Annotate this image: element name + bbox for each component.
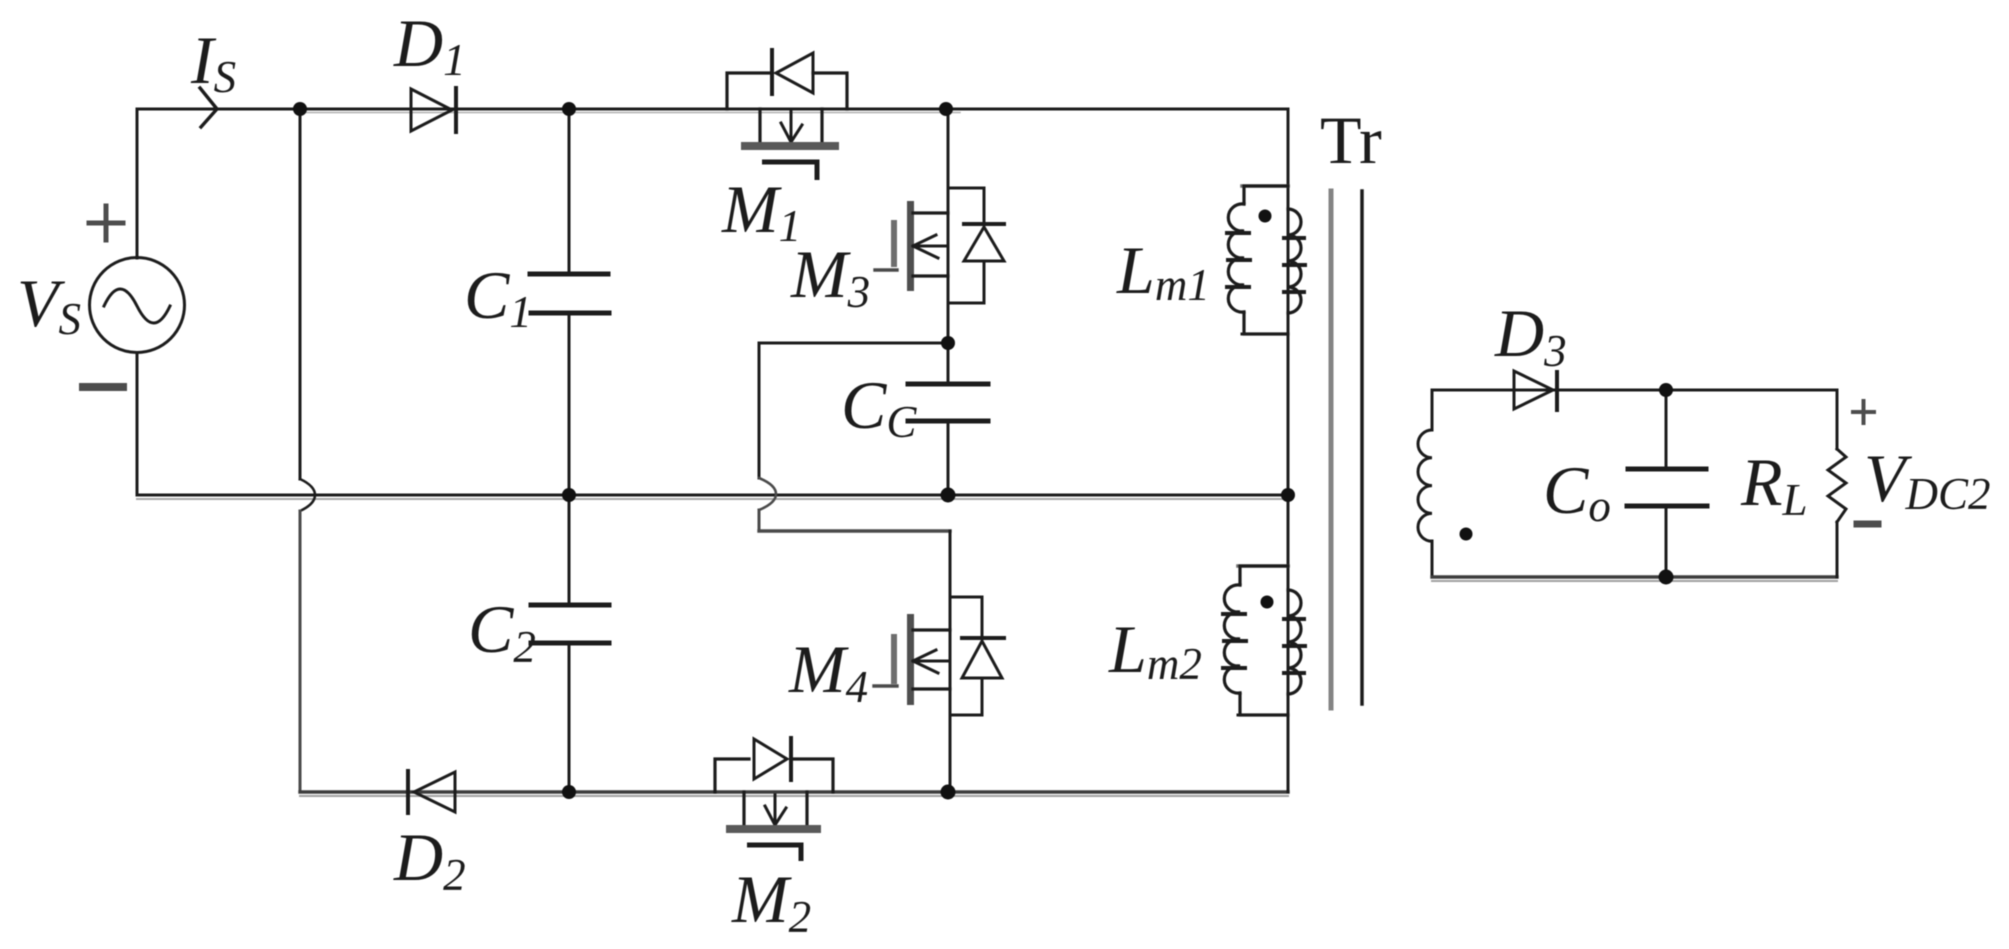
wire Lm1 top lead (1242, 184, 1288, 188)
wire M3 source to bypass left (759, 342, 948, 345)
junction node top C1 (562, 102, 576, 116)
wire Co bottom lead (1665, 506, 1668, 577)
wire secondary left vertical upper (1431, 390, 1434, 430)
wire VS bottom lead (136, 353, 139, 495)
inductor Lm1 (1227, 186, 1305, 334)
wire middle rail echo (137, 498, 1288, 500)
diode D1 (411, 88, 456, 132)
wire C1 column top (568, 109, 571, 274)
VS minus sign (83, 383, 123, 391)
wire secondary left vertical lower (1431, 541, 1434, 577)
wire top rail (137, 108, 1288, 111)
junction node top x300 (293, 102, 307, 116)
wire VS top lead (136, 109, 139, 258)
wire CC bottom (947, 421, 950, 495)
wire vertical x300 upper (299, 109, 302, 479)
wire C2 column bottom (568, 643, 571, 792)
wire CC top (947, 343, 950, 384)
polarity dot Lm2 (1261, 596, 1274, 609)
VDC2 plus sign (1853, 401, 1874, 423)
wire top rail echo (300, 112, 960, 114)
wire C2 column top (568, 495, 571, 605)
mosfet M4 (vertical) (874, 597, 1004, 715)
capacitor C1 (530, 274, 609, 313)
resistor RL zigzag (1828, 449, 1846, 522)
wire secondary bottom echo (1432, 580, 1837, 582)
wire secondary bottom (1432, 575, 1837, 578)
junction node secondary bottom Co (1659, 570, 1674, 585)
capacitor CC (908, 384, 988, 421)
IS arrow (200, 88, 217, 127)
wire Co top lead (1665, 390, 1668, 469)
wire bottom rail (300, 790, 1288, 793)
capacitor C2 (531, 605, 609, 643)
junction node bottom M4 (941, 785, 956, 800)
wire bottom rail echo (300, 795, 1288, 797)
mosfet M1 (horizontal, on top rail) (727, 50, 847, 150)
wire bypass vertical upper (758, 343, 761, 478)
svg-text:Tr: Tr (1320, 102, 1382, 178)
diode D2 (408, 771, 455, 813)
wire M3 drain column (947, 109, 950, 343)
wire secondary top (1432, 389, 1837, 392)
wire RL bottom lead (1836, 522, 1839, 577)
wire Lm1 bottom lead (1242, 333, 1288, 336)
wire RL top lead (1836, 390, 1839, 449)
transformer core right bar (1360, 191, 1364, 704)
wire C1 column bottom (568, 313, 571, 495)
diode D3 (1514, 371, 1557, 410)
VDC2 minus sign (1857, 521, 1878, 528)
wire vertical x300 lower (299, 511, 302, 792)
wire bypass vertical lower (758, 510, 761, 531)
wire hop x300 over middle rail (300, 479, 315, 511)
mosfet M2 (horizontal, on bottom rail) (715, 738, 833, 833)
wire Lm2 top lead (1238, 564, 1288, 568)
transformer secondary winding (1418, 430, 1432, 541)
polarity dot secondary (1460, 528, 1473, 541)
junction node M3 source (941, 336, 955, 350)
wire M4 drain column (949, 531, 952, 792)
transformer core left bar (1329, 191, 1334, 708)
wire primary bus right (1287, 109, 1290, 792)
VS plus sign (89, 206, 123, 240)
capacitor Co (1627, 469, 1707, 506)
voltage source VS sine (104, 289, 170, 323)
wire bypass horizontal to M4 (759, 529, 950, 532)
voltage source VS circle (90, 258, 185, 353)
polarity dot Lm1 (1259, 210, 1272, 223)
wire hop bypass over middle rail (759, 478, 776, 510)
mosfet M3 (vertical) (875, 188, 1004, 303)
junction node rail C1C2 (562, 488, 576, 502)
junction node rail CC (941, 488, 956, 503)
junction node top M3 (939, 102, 953, 116)
inductor Lm2 (1223, 566, 1305, 715)
junction node bottom C2 (562, 785, 576, 799)
wire Lm2 bottom lead (1238, 714, 1288, 717)
wire middle rail (137, 494, 1288, 497)
junction node rail transformer (1281, 488, 1295, 502)
junction node secondary top Co (1659, 383, 1673, 397)
